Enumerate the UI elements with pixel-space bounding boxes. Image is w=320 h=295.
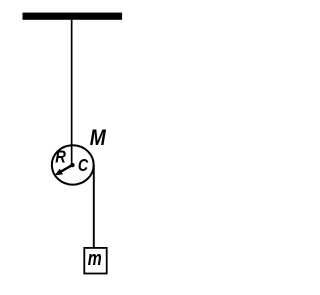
- node C: center dot of pulley: [70, 163, 74, 167]
- ceiling bar: [23, 13, 123, 20]
- svg-text:M: M: [90, 125, 107, 150]
- wire: string from pulley rim down to block: [93, 165, 95, 248]
- block m: [84, 248, 106, 274]
- svg-text:m: m: [88, 247, 102, 270]
- svg-text:C: C: [78, 155, 89, 175]
- radius arrow R (from center to rim): [55, 165, 73, 176]
- pulley disk M: [52, 145, 94, 184]
- wire: support rod from ceiling to pulley center: [71, 20, 73, 165]
- svg-text:R: R: [55, 147, 66, 167]
